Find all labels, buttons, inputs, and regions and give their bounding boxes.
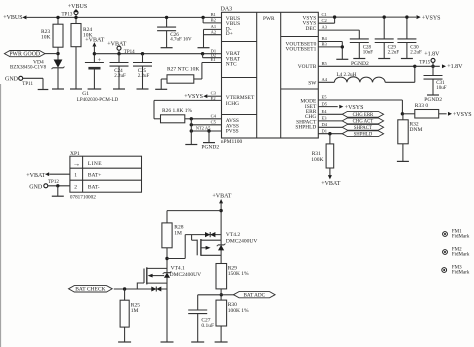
svg-text:100K 1%: 100K 1% <box>228 308 249 314</box>
svg-text:VT4.1: VT4.1 <box>171 266 185 272</box>
svg-text:DA3: DA3 <box>221 7 233 13</box>
svg-text:10K: 10K <box>41 35 51 41</box>
svg-text:SHPHLD: SHPHLD <box>295 125 316 131</box>
svg-text:150K 1%: 150K 1% <box>228 271 249 277</box>
svg-text:D+: D+ <box>226 31 233 37</box>
svg-text:TP14: TP14 <box>124 50 135 55</box>
svg-text:FM3: FM3 <box>452 265 462 270</box>
svg-text:LINE: LINE <box>88 161 102 167</box>
svg-text:A2: A2 <box>211 29 217 34</box>
svg-text:1M: 1M <box>131 308 139 314</box>
svg-text:R33 0: R33 0 <box>415 103 429 109</box>
svg-text:DMC2400UV: DMC2400UV <box>226 239 258 245</box>
svg-text:nPM1100: nPM1100 <box>221 139 243 145</box>
svg-text:B1: B1 <box>211 12 216 17</box>
svg-text:BAT ADC: BAT ADC <box>243 292 265 298</box>
svg-text:E2: E2 <box>211 96 216 101</box>
svg-text:PVSS: PVSS <box>226 129 239 135</box>
svg-text:+VBAT: +VBAT <box>26 173 45 179</box>
svg-text:VOUTBSET1: VOUTBSET1 <box>285 47 316 53</box>
svg-text:D1: D1 <box>322 128 328 133</box>
svg-text:VOUTB: VOUTB <box>298 64 317 70</box>
svg-text:FidMark: FidMark <box>452 235 470 240</box>
svg-text:TP13: TP13 <box>62 13 73 18</box>
svg-text:NT2 A5: NT2 A5 <box>196 126 211 131</box>
svg-text:BZX38450-C1V8: BZX38450-C1V8 <box>10 66 47 71</box>
svg-text:B5: B5 <box>322 61 328 66</box>
svg-text:FM2: FM2 <box>452 247 462 252</box>
svg-text:PWR GOOD: PWR GOOD <box>9 52 40 58</box>
svg-text:ICHG: ICHG <box>226 101 239 107</box>
svg-text:C1: C1 <box>322 12 327 17</box>
svg-text:PWR: PWR <box>263 16 275 22</box>
svg-text:R26 1.8K 1%: R26 1.8K 1% <box>162 108 193 114</box>
svg-text:CHG ERR: CHG ERR <box>353 113 374 118</box>
svg-text:+1.8V: +1.8V <box>424 51 440 57</box>
svg-text:+: + <box>98 58 102 64</box>
svg-text:A1: A1 <box>211 24 217 29</box>
svg-text:2.2uF: 2.2uF <box>138 74 150 79</box>
svg-text:FidMark: FidMark <box>452 253 470 258</box>
svg-text:+VBAT: +VBAT <box>85 38 104 44</box>
svg-text:2.2uF: 2.2uF <box>388 50 400 55</box>
svg-text:E5: E5 <box>322 95 328 100</box>
svg-text:LP402030-PCM-LD: LP402030-PCM-LD <box>77 98 119 103</box>
svg-text:+VBUS: +VBUS <box>68 4 87 10</box>
svg-text:BAT-: BAT- <box>88 185 100 191</box>
svg-text:BAT CHECK: BAT CHECK <box>75 287 105 293</box>
svg-text:BAT+: BAT+ <box>88 173 102 179</box>
svg-text:B2: B2 <box>211 18 216 23</box>
svg-text:10nF: 10nF <box>363 50 374 55</box>
svg-text:DMC2400UV: DMC2400UV <box>170 272 202 278</box>
svg-text:0781710002: 0781710002 <box>70 194 96 200</box>
svg-text:GND: GND <box>5 77 19 83</box>
svg-text:A3: A3 <box>322 25 328 30</box>
svg-text:B4: B4 <box>322 36 328 41</box>
svg-text:SHPACT: SHPACT <box>354 126 372 131</box>
svg-text:FM1: FM1 <box>452 229 462 234</box>
svg-text:2.2uF: 2.2uF <box>410 50 422 55</box>
svg-text:1: 1 <box>74 173 77 179</box>
svg-text:B3: B3 <box>322 42 328 47</box>
svg-text:+VSYS: +VSYS <box>184 94 203 100</box>
svg-text:+VBAT: +VBAT <box>212 194 231 200</box>
svg-text:SHPHLD: SHPHLD <box>354 132 373 137</box>
svg-text:1M: 1M <box>174 230 182 236</box>
svg-text:10uF: 10uF <box>436 86 447 91</box>
svg-text:VD4: VD4 <box>33 59 44 65</box>
svg-text:C3: C3 <box>211 91 217 96</box>
svg-text:100K: 100K <box>311 157 323 163</box>
svg-text:C4: C4 <box>211 113 217 118</box>
svg-text:GND: GND <box>29 184 43 190</box>
svg-text:→: → <box>73 159 81 168</box>
svg-text:CHG ACT: CHG ACT <box>353 120 374 125</box>
svg-text:D4: D4 <box>322 122 328 127</box>
svg-text:R27 NTC 10K: R27 NTC 10K <box>167 67 199 73</box>
svg-text:G1: G1 <box>82 91 89 97</box>
svg-text:+VBUS: +VBUS <box>3 15 22 21</box>
svg-text:L4 2.2uH: L4 2.2uH <box>337 72 357 78</box>
svg-text:+VSYS: +VSYS <box>422 15 441 21</box>
svg-text:FidMark: FidMark <box>452 271 470 276</box>
svg-text:E4: E4 <box>322 109 328 114</box>
svg-text:A4: A4 <box>322 77 328 82</box>
svg-text:+1.8V: +1.8V <box>447 64 463 70</box>
svg-text:E3: E3 <box>322 116 328 121</box>
svg-text:0.1uF: 0.1uF <box>201 323 214 329</box>
svg-text:C2: C2 <box>322 18 327 23</box>
svg-text:TP11: TP11 <box>22 82 33 87</box>
svg-text:+VSYS: +VSYS <box>453 112 472 118</box>
svg-text:D5: D5 <box>322 101 328 106</box>
svg-text:C5: C5 <box>211 119 217 124</box>
svg-text:DNM: DNM <box>410 127 423 133</box>
svg-text:VT4.2: VT4.2 <box>226 232 240 238</box>
svg-text:4.7uF 16V: 4.7uF 16V <box>170 38 192 43</box>
svg-text:TP15: TP15 <box>419 60 430 65</box>
svg-text:NTC: NTC <box>226 61 237 67</box>
svg-text:2: 2 <box>74 185 77 191</box>
svg-text:SW: SW <box>308 81 317 87</box>
svg-text:PGND2: PGND2 <box>201 144 219 150</box>
svg-text:+VBAT: +VBAT <box>107 41 126 47</box>
svg-text:+VBAT: +VBAT <box>321 181 340 187</box>
svg-text:+VSYS: +VSYS <box>345 105 364 111</box>
svg-text:E1: E1 <box>211 57 216 62</box>
svg-text:2.2uF: 2.2uF <box>114 74 126 79</box>
svg-text:DEC: DEC <box>306 26 317 32</box>
